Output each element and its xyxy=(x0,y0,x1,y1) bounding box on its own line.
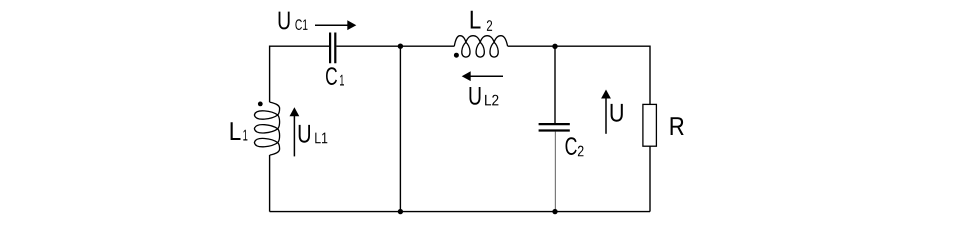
label R xyxy=(671,117,684,135)
label C2 xyxy=(566,137,584,156)
wire C2 branch upper lead xyxy=(554,46,556,123)
inductor L2 coil xyxy=(454,36,507,57)
resistor R body xyxy=(643,104,657,146)
voltage arrow U xyxy=(601,90,611,134)
label U_L2 xyxy=(470,87,499,105)
voltage arrow U_L2 xyxy=(462,71,503,81)
voltage arrow U_L1 xyxy=(290,107,300,156)
junction node top between C1 and L2 xyxy=(398,44,403,49)
label U_C1 xyxy=(279,12,308,30)
label L2 xyxy=(471,11,492,31)
label U_L1 xyxy=(299,125,328,143)
junction node bottom C2 branch xyxy=(552,209,557,214)
wire left branch lower (L1 to bottom wire) xyxy=(269,155,271,212)
junction node bottom middle xyxy=(398,209,403,214)
wire C2 branch lower lead (light) xyxy=(554,132,556,212)
capacitor C2 plates xyxy=(539,124,570,130)
polarity dot of L2 xyxy=(454,53,459,58)
junction node top between L2 and C2 xyxy=(552,44,557,49)
polarity dot of L1 xyxy=(258,102,263,107)
wire top-left (left corner to C1 left plate) xyxy=(270,45,329,47)
voltage arrow U_C1 xyxy=(315,20,356,30)
capacitor C1 plates xyxy=(330,33,335,64)
label U xyxy=(611,104,623,122)
wire right branch upper lead (corner to R) xyxy=(649,46,651,105)
wire top-right (L2 right end to top-right corner) xyxy=(508,45,650,47)
label L1 xyxy=(231,122,248,140)
wire bottom xyxy=(270,211,650,213)
inductor L1 coil xyxy=(254,102,279,155)
wire right branch lower lead (R to bottom wire) xyxy=(649,146,651,211)
wire left branch upper (corner down to L1) xyxy=(269,46,271,103)
wire top-middle (C1 right plate to L2 left end) xyxy=(336,45,454,47)
label C1 xyxy=(326,67,344,85)
wire middle branch vertical xyxy=(399,46,401,211)
